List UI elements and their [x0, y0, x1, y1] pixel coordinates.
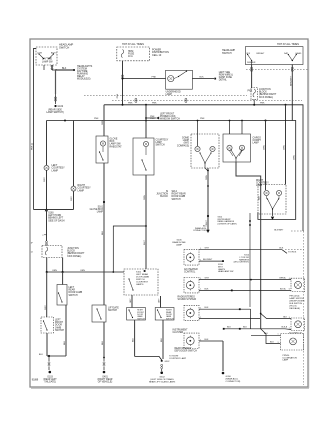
svg-text:BLK/WHT: BLK/WHT	[274, 229, 284, 231]
svg-text:BLK: BLK	[205, 307, 210, 309]
svg-text:BLK: BLK	[132, 337, 134, 342]
svg-text:3: 3	[289, 317, 290, 319]
svg-text:GRY: GRY	[158, 298, 160, 303]
svg-text:3: 3	[278, 342, 279, 344]
svg-text:BLK: BLK	[264, 333, 268, 335]
svg-text:BLK: BLK	[279, 248, 284, 250]
svg-text:ORN: ORN	[144, 195, 146, 200]
svg-text:1: 1	[200, 308, 201, 310]
svg-text:ORN: ORN	[206, 175, 208, 180]
svg-text:BRN/WHT: BRN/WHT	[290, 75, 292, 86]
svg-text:1: 1	[200, 339, 201, 341]
svg-text:1: 1	[278, 334, 279, 336]
svg-text:BRIGHT: BRIGHT	[257, 53, 266, 55]
svg-text:ORN: ORN	[294, 155, 296, 160]
svg-text:PNK: PNK	[248, 91, 253, 93]
svg-text:6: 6	[289, 289, 290, 291]
svg-text:BLK: BLK	[227, 327, 232, 329]
svg-text:BLK: BLK	[102, 230, 104, 235]
svg-text:BLK: BLK	[62, 68, 67, 70]
svg-text:BLK: BLK	[243, 327, 248, 329]
svg-text:RADIO/STEREOSOUND SYSTEM: RADIO/STEREOSOUND SYSTEM	[178, 296, 196, 302]
svg-text:(REAR SIDELAMP SWITCH): (REAR SIDELAMP SWITCH)	[46, 109, 64, 115]
svg-text:PNK: PNK	[152, 103, 157, 105]
svg-text:DAYTIMELAMP SW: DAYTIMELAMP SW	[42, 58, 53, 64]
svg-text:GRY: GRY	[205, 278, 210, 280]
svg-text:ORN: ORN	[283, 145, 285, 150]
svg-text:HOT AT ALL TIMES: HOT AT ALL TIMES	[277, 43, 299, 46]
svg-text:PNK: PNK	[117, 93, 119, 98]
svg-text:ORN: ORN	[102, 120, 104, 125]
svg-text:PNK: PNK	[200, 118, 205, 120]
svg-text:PNK: PNK	[94, 118, 99, 120]
svg-text:HOT AT ALL TIMES: HOT AT ALL TIMES	[122, 43, 144, 46]
svg-text:GRY: GRY	[45, 305, 47, 310]
svg-text:DIMMER: DIMMER	[247, 62, 256, 64]
svg-text:PNK: PNK	[128, 103, 133, 105]
svg-text:BLK: BLK	[39, 354, 44, 356]
svg-text:GRY: GRY	[44, 177, 46, 182]
svg-text:DAY: DAY	[284, 52, 289, 55]
svg-text:AUTO: AUTO	[51, 52, 57, 55]
svg-text:PNK: PNK	[32, 145, 34, 150]
svg-text:BLK: BLK	[259, 195, 261, 200]
svg-text:1: 1	[200, 278, 201, 280]
svg-text:BLK/WHT: BLK/WHT	[203, 259, 213, 261]
svg-text:TO RDS: TO RDS	[288, 251, 297, 253]
svg-text:ORN: ORN	[52, 270, 57, 272]
svg-text:BLK: BLK	[64, 340, 66, 345]
svg-text:BLK A: BLK A	[281, 326, 287, 329]
svg-text:PNK: PNK	[260, 103, 265, 105]
svg-text:ORN: ORN	[80, 270, 85, 272]
svg-text:14: 14	[31, 252, 33, 254]
svg-text:BLK: BLK	[205, 339, 210, 341]
svg-text:GRY: GRY	[71, 196, 73, 201]
svg-text:GRY: GRY	[130, 298, 132, 303]
svg-text:1: 1	[200, 248, 201, 250]
svg-text:BLK: BLK	[283, 316, 287, 318]
svg-text:GRY: GRY	[205, 248, 210, 250]
svg-text:OFF: OFF	[246, 53, 251, 55]
svg-text:2: 2	[289, 328, 290, 330]
svg-text:BLK: BLK	[161, 337, 163, 342]
svg-text:HEAD: HEAD	[296, 52, 302, 55]
svg-text:ORN: ORN	[263, 145, 265, 150]
svg-text:BLK: BLK	[205, 288, 210, 290]
svg-text:1: 1	[200, 317, 201, 319]
svg-text:WHT: WHT	[144, 239, 146, 245]
svg-text:PNK: PNK	[150, 116, 155, 118]
svg-text:BLK A: BLK A	[280, 287, 286, 290]
svg-text:BLK: BLK	[270, 341, 274, 343]
svg-text:WHT: WHT	[206, 219, 208, 225]
svg-text:PNK: PNK	[152, 76, 157, 78]
svg-text:BRN A: BRN A	[279, 277, 286, 280]
svg-text:1: 1	[200, 259, 201, 261]
svg-text:BLK: BLK	[200, 76, 205, 78]
svg-text:91889: 91889	[32, 380, 39, 382]
svg-text:BLK: BLK	[102, 340, 104, 345]
svg-text:1: 1	[200, 289, 201, 291]
svg-text:4: 4	[289, 278, 290, 280]
